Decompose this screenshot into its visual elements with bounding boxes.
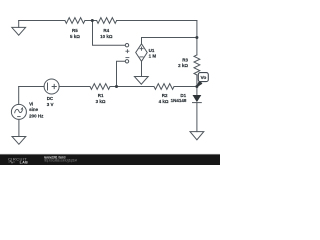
svg-text:R1: R1 (98, 93, 104, 98)
svg-text:4 kΩ: 4 kΩ (159, 99, 169, 104)
svg-text:sine: sine (29, 107, 39, 112)
svg-text:10 kΩ: 10 kΩ (100, 34, 113, 39)
svg-text:2 kΩ: 2 kΩ (178, 63, 188, 68)
svg-text:R3: R3 (182, 57, 188, 62)
svg-text:U1: U1 (149, 48, 155, 53)
svg-text:R2: R2 (162, 93, 168, 98)
svg-text:5 kΩ: 5 kΩ (70, 34, 80, 39)
svg-text:http://circuitlab.com/c/g5q23d: http://circuitlab.com/c/g5q23d4 (44, 159, 77, 163)
svg-text:R5: R5 (72, 28, 78, 33)
svg-text:200 Hz: 200 Hz (29, 114, 44, 119)
svg-text:1N4148: 1N4148 (171, 98, 187, 103)
svg-text:Vi: Vi (29, 102, 33, 107)
svg-text:1 M: 1 M (149, 54, 157, 59)
svg-text:3 V: 3 V (47, 102, 54, 107)
svg-text:R4: R4 (103, 28, 109, 33)
svg-text:DC: DC (47, 96, 54, 101)
svg-text:3 kΩ: 3 kΩ (96, 99, 106, 104)
svg-text:LAB: LAB (20, 160, 29, 164)
svg-text:Vo: Vo (201, 75, 207, 81)
